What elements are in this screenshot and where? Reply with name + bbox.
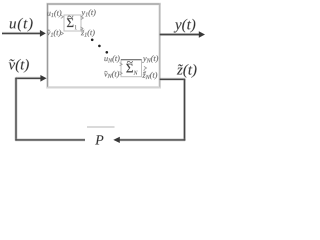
tiny arrow into Sigma-N upper (120, 63, 123, 66)
subscript 1 of Sigma-1 (75, 25, 77, 29)
label z-tilde(t) (177, 64, 197, 78)
main system box halo (48, 4, 160, 87)
wire v-tilde horizontal halo (16, 77, 42, 80)
wire bottom feedback right segment halo (120, 138, 186, 141)
tiny arrow into Sigma-N lower (120, 72, 123, 75)
tiny arrow out of Sigma-N lower (144, 70, 146, 73)
diagonal dots (91, 39, 94, 42)
label y(t) (174, 19, 196, 33)
label z-tilde-1(t) (81, 30, 95, 37)
wire bottom feedback right segment (120, 139, 186, 141)
wire bottom feedback left segment (15, 139, 85, 141)
tiny arrow out of Sigma-1 lower (80, 27, 83, 30)
label uN(t) (104, 55, 119, 62)
wire left feedback vertical halo (15, 78, 18, 141)
arrowhead y(t) (199, 31, 205, 38)
main system box right edge (159, 3, 161, 88)
op symbol Sigma-1 (67, 18, 74, 27)
block P top edge (87, 126, 115, 128)
wire bottom feedback left segment halo (15, 138, 85, 141)
tilde over Sigma-1 (67, 16, 73, 18)
subsystem box Sigma-tilde-N (121, 60, 142, 77)
wire z-tilde horizontal halo (160, 78, 186, 81)
arrowhead v-tilde (40, 75, 46, 82)
main system box left edge (47, 3, 49, 88)
tiny arrow into Sigma-1 lower (61, 32, 64, 35)
label u1(t) (47, 10, 61, 17)
main system box bottom edge (47, 86, 160, 88)
label u(t) (10, 18, 33, 32)
label v-tilde(t) (9, 59, 29, 73)
wire y(t) halo (160, 33, 200, 36)
label v-tilde-N(t) (104, 71, 119, 78)
subsystem box Sigma-tilde-1 (64, 15, 81, 31)
tiny arrow out of Sigma-1 upper (81, 16, 84, 19)
op symbol Sigma-N (126, 64, 133, 73)
tiny arrow out of Sigma-N upper (144, 66, 147, 69)
tiny arrow into Sigma-1 upper (61, 15, 64, 18)
label P (95, 135, 103, 144)
arrowhead into P (113, 137, 120, 143)
wire u(t) input (2, 32, 41, 34)
label y1(t) (81, 9, 96, 16)
wire left feedback vertical (15, 78, 17, 141)
wire right feedback vertical (184, 79, 186, 140)
main system box top edge (47, 3, 160, 5)
wire u(t) halo (2, 32, 41, 35)
label z-tilde-N(t) (142, 72, 157, 79)
arrowhead u(t) (40, 30, 46, 37)
wire right feedback vertical halo (183, 79, 186, 140)
wire v-tilde horizontal into box (15, 77, 41, 79)
label v-tilde-1(t) (47, 30, 61, 37)
wire z-tilde horizontal out of box (160, 78, 186, 80)
label yN(t) (142, 55, 158, 62)
subscript N of Sigma-N (133, 71, 137, 75)
wire y(t) output (160, 34, 200, 36)
box Sigma-N top edge darker (121, 59, 142, 61)
tilde over Sigma-N (127, 61, 133, 63)
